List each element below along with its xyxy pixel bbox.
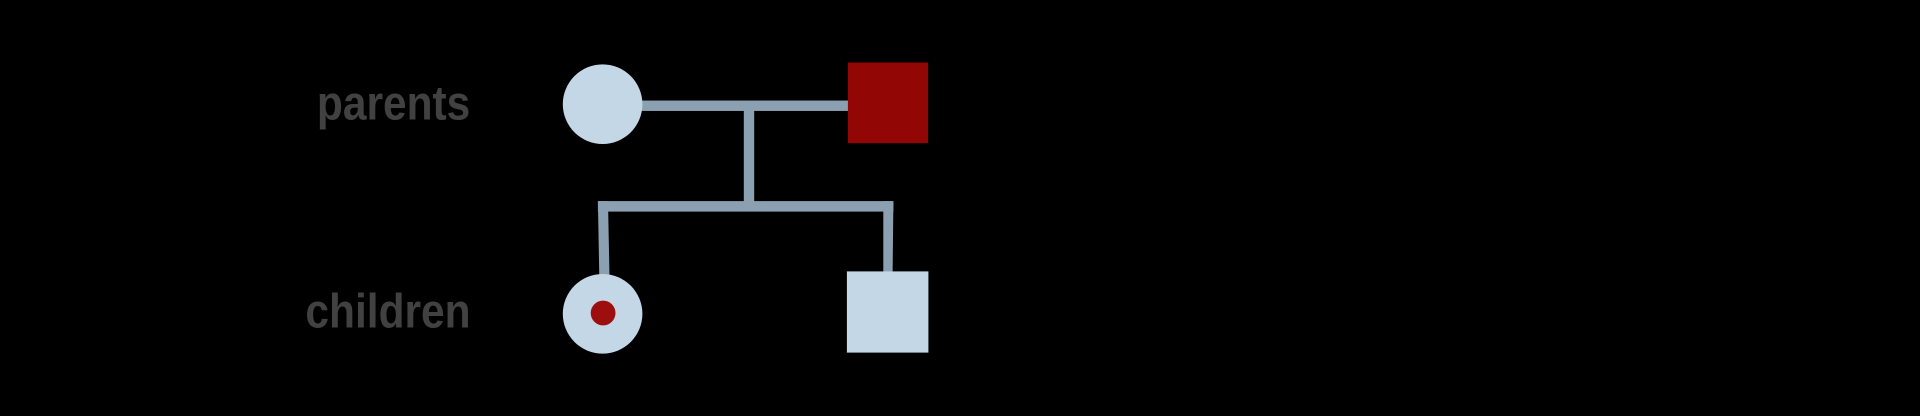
wire left drop to daughter <box>598 201 610 277</box>
wire sibling bar <box>598 201 894 212</box>
wire right drop to son <box>883 201 893 274</box>
mother circle <box>563 64 643 144</box>
wire couple line <box>602 101 888 111</box>
daughter circle (carrier) <box>563 274 643 354</box>
wire descender from couple line <box>744 105 754 206</box>
father square (affected) <box>848 63 928 144</box>
label parents <box>317 76 470 130</box>
son square <box>847 271 929 352</box>
daughter carrier dot <box>591 301 616 326</box>
svg-text:children: children <box>305 284 470 338</box>
svg-text:parents: parents <box>317 76 470 130</box>
label children <box>305 284 470 338</box>
